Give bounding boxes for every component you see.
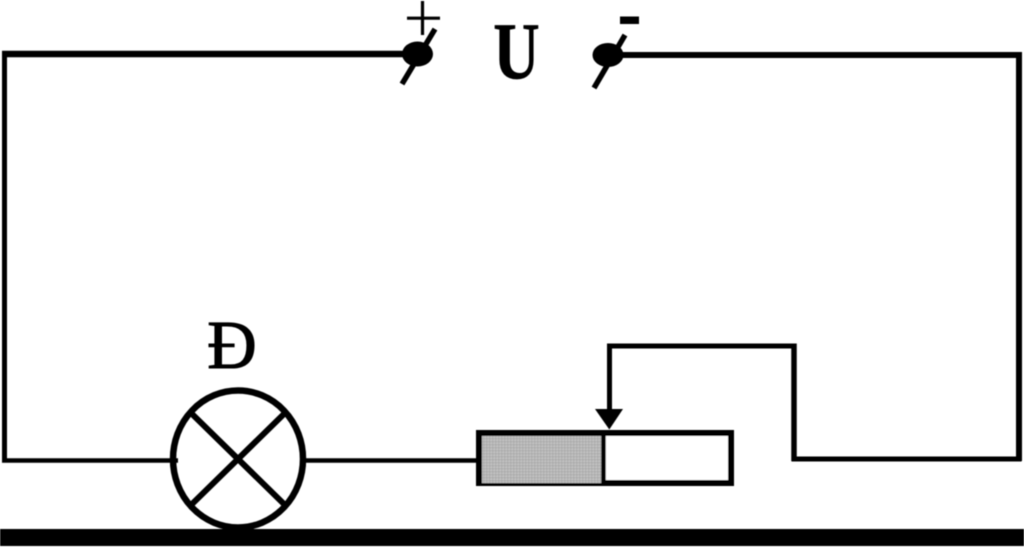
wire right vertical (1016, 52, 1022, 461)
lamp Đ (circle with X) (173, 391, 303, 528)
ground bar (table edge) (0, 529, 1024, 546)
wire wiper horizontal (607, 344, 794, 349)
rheostat track (half shaded) (479, 430, 731, 486)
svg-text:Đ: Đ (207, 307, 256, 383)
minus sign (620, 17, 639, 25)
wire left vertical (2, 51, 7, 460)
terminal + (positive binding post) (402, 29, 435, 84)
rheostat wiper arrow (595, 344, 623, 430)
plus sign (407, 1, 440, 35)
wire middle-right vertical (791, 344, 797, 462)
svg-text:U: U (493, 6, 539, 96)
wire bottom-left horizontal (2, 458, 178, 463)
wire top-left horizontal (2, 51, 410, 58)
wire lamp to rheostat (301, 458, 478, 463)
wire bottom-right horizontal (792, 457, 1022, 462)
wire top-right horizontal (620, 52, 1022, 58)
terminal - (negative binding post) (593, 35, 626, 88)
